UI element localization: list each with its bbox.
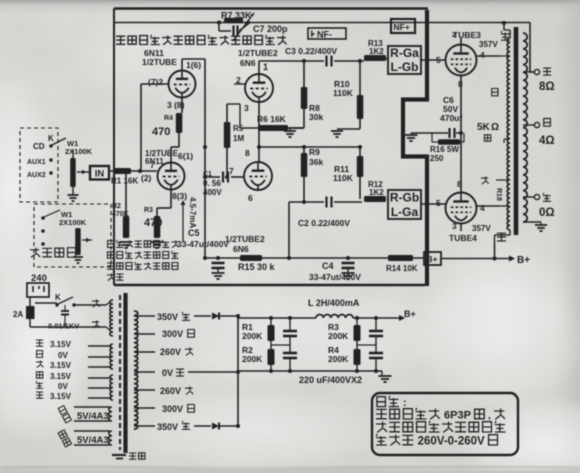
svg-text:C4: C4: [322, 261, 334, 271]
svg-text:3.15V: 3.15V: [50, 372, 72, 381]
svg-text:,: ,: [488, 411, 491, 422]
svg-text:4Ω: 4Ω: [539, 135, 555, 147]
svg-text:300V: 300V: [162, 329, 183, 339]
svg-text:L 2H/400mA: L 2H/400mA: [308, 298, 360, 308]
svg-text:33-47ut/400V: 33-47ut/400V: [309, 272, 361, 282]
svg-text:R15 30 k: R15 30 k: [238, 262, 276, 272]
svg-text:R6 16K: R6 16K: [257, 114, 287, 124]
svg-text:0.01/1KV: 0.01/1KV: [48, 322, 79, 331]
svg-text:1K2: 1K2: [369, 47, 384, 56]
svg-text:200K: 200K: [328, 331, 349, 341]
svg-text:110K: 110K: [333, 88, 354, 98]
svg-text:200K: 200K: [242, 354, 263, 364]
svg-text:L-Ga: L-Ga: [391, 205, 419, 219]
svg-text:B+: B+: [427, 254, 438, 264]
svg-text:260V: 260V: [160, 347, 181, 357]
svg-text:3.15V: 3.15V: [50, 392, 72, 401]
svg-text:8: 8: [245, 148, 250, 158]
svg-text:8Ω: 8Ω: [539, 81, 555, 93]
svg-text::: :: [403, 397, 407, 409]
svg-text:1: 1: [263, 62, 268, 72]
svg-text:0Ω: 0Ω: [539, 207, 555, 219]
svg-text:1/2TUBE2: 1/2TUBE2: [225, 234, 265, 244]
svg-text:3.15V: 3.15V: [50, 340, 72, 349]
svg-text:0V: 0V: [162, 368, 173, 378]
svg-text:1M: 1M: [233, 134, 244, 143]
svg-text:R14 10K: R14 10K: [386, 264, 418, 273]
svg-text:5V/4A3: 5V/4A3: [77, 435, 109, 446]
svg-text:2X100K: 2X100K: [65, 147, 93, 156]
svg-text:4.5-7mA: 4.5-7mA: [188, 197, 197, 228]
svg-text:C3 0.22/400V: C3 0.22/400V: [285, 46, 337, 56]
svg-text:260V-0-260V: 260V-0-260V: [418, 436, 485, 448]
svg-text:2: 2: [452, 32, 456, 39]
svg-text:L-Gb: L-Gb: [391, 60, 419, 74]
svg-text:C7 200p: C7 200p: [253, 24, 288, 34]
svg-text:470uf: 470uf: [440, 113, 462, 123]
svg-text:R1 16K: R1 16K: [111, 177, 138, 186]
svg-text:357V: 357V: [472, 224, 491, 233]
svg-text:260V: 260V: [160, 386, 181, 396]
svg-text:(7)2: (7)2: [148, 77, 163, 87]
svg-text:6: 6: [248, 193, 253, 203]
svg-text:6(1): 6(1): [178, 151, 193, 161]
svg-text:350V: 350V: [157, 312, 178, 322]
svg-text:200K: 200K: [242, 331, 263, 341]
svg-text:K: K: [48, 134, 54, 143]
svg-text:400V: 400V: [203, 188, 222, 197]
svg-text:R-Ga: R-Ga: [390, 46, 419, 60]
svg-text:R2: R2: [112, 203, 121, 210]
svg-text:Ω: Ω: [491, 122, 499, 133]
svg-text:110K: 110K: [333, 173, 354, 183]
svg-text:C5: C5: [188, 228, 200, 238]
svg-text:1/2TUBE2: 1/2TUBE2: [238, 48, 278, 58]
svg-text:2A: 2A: [13, 310, 23, 319]
svg-text:R4: R4: [164, 115, 173, 122]
svg-text:TUBE4: TUBE4: [449, 233, 477, 243]
svg-text:NF+: NF+: [394, 22, 410, 32]
svg-text:4: 4: [480, 203, 485, 213]
svg-text:IN: IN: [95, 169, 105, 180]
svg-text:R7 33K: R7 33K: [221, 11, 252, 21]
svg-text:36k: 36k: [309, 157, 323, 167]
svg-text:R9: R9: [309, 147, 320, 157]
svg-text:3: 3: [452, 221, 457, 231]
svg-text:3: 3: [244, 103, 249, 113]
svg-text:R18: R18: [495, 188, 502, 201]
svg-text:470: 470: [152, 126, 170, 138]
svg-text:33-47ut/400V: 33-47ut/400V: [177, 239, 229, 249]
svg-text:7: 7: [229, 166, 234, 176]
svg-text:5K: 5K: [477, 122, 491, 133]
svg-text:AUX1: AUX1: [27, 159, 46, 166]
svg-text:R3: R3: [144, 207, 153, 214]
svg-text:5: 5: [436, 198, 441, 208]
svg-text:30k: 30k: [309, 112, 323, 122]
svg-text:6P3P: 6P3P: [444, 410, 471, 422]
svg-text:CD: CD: [33, 142, 45, 151]
svg-text:350V: 350V: [157, 422, 178, 432]
svg-text:TUBE3: TUBE3: [453, 30, 481, 40]
svg-text:1/2TUBE: 1/2TUBE: [142, 57, 177, 67]
svg-text:K: K: [55, 293, 61, 302]
svg-text:250: 250: [430, 154, 444, 163]
svg-text:R16 5W: R16 5W: [430, 145, 459, 154]
svg-text:4: 4: [480, 50, 485, 60]
svg-text:1K2: 1K2: [369, 188, 384, 197]
svg-text:8(3): 8(3): [172, 191, 187, 201]
svg-text:1(6): 1(6): [186, 60, 201, 70]
svg-text:6N6: 6N6: [240, 58, 256, 68]
svg-text:B+: B+: [517, 255, 530, 266]
svg-text:300V: 300V: [162, 404, 183, 414]
svg-text:(2): (2): [141, 173, 152, 183]
svg-text:5V/4A3: 5V/4A3: [77, 411, 109, 422]
svg-text:470: 470: [144, 217, 162, 229]
svg-text:B+: B+: [404, 309, 416, 319]
svg-text:0V: 0V: [58, 351, 68, 360]
svg-text:6N6: 6N6: [233, 244, 249, 254]
svg-text:3.15V: 3.15V: [50, 361, 72, 370]
svg-text:NF-: NF-: [317, 30, 332, 40]
svg-text:0V: 0V: [58, 382, 68, 391]
svg-text:200K: 200K: [328, 354, 349, 364]
svg-text:AUX2: AUX2: [27, 172, 46, 179]
svg-text:220 uF/400VX2: 220 uF/400VX2: [299, 375, 362, 385]
svg-text:C2 0.22/400V: C2 0.22/400V: [298, 218, 350, 228]
svg-text:R-Gb: R-Gb: [390, 191, 419, 205]
svg-text:2X100K: 2X100K: [59, 218, 87, 227]
svg-text:357V: 357V: [479, 40, 498, 49]
svg-text:7: 7: [150, 160, 155, 170]
svg-text:470K: 470K: [112, 211, 129, 218]
